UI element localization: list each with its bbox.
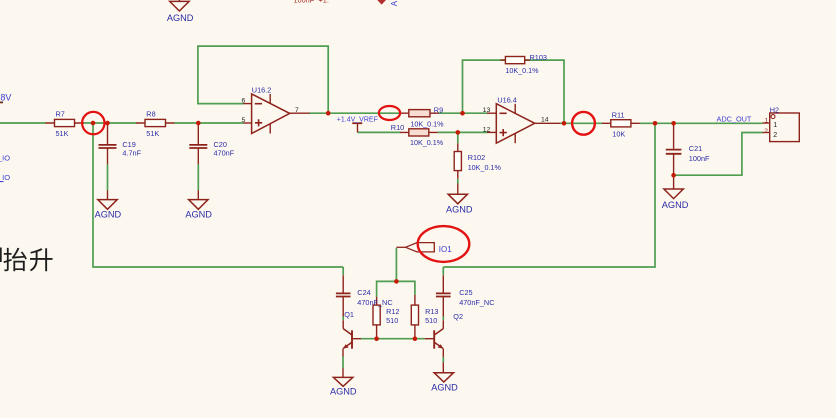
svg-text:AGND: AGND — [185, 209, 212, 219]
svg-text:6: 6 — [242, 97, 246, 104]
pin 2 lead — [763, 132, 770, 134]
svg-text:U16.2: U16.2 — [252, 86, 271, 95]
svg-text:5: 5 — [242, 117, 246, 124]
wire C24 lead green gap — [342, 317, 344, 321]
ground AGND under R102 — [446, 184, 473, 215]
svg-text:510: 510 — [386, 316, 398, 325]
node C21 bottom / H2 pin2 wire — [671, 173, 676, 178]
node IO1 tee — [394, 279, 399, 284]
resistor R7 — [46, 109, 85, 137]
svg-text:AGND: AGND — [446, 204, 473, 214]
plus symbol — [500, 129, 507, 136]
svg-text:1: 1 — [765, 118, 769, 125]
wire R102 top stub — [457, 132, 459, 143]
svg-text:IO1: IO1 — [439, 245, 452, 254]
power stub bottom — [514, 133, 516, 143]
pin 5 lead — [244, 122, 252, 124]
svg-text:10K_0.1%: 10K_0.1% — [468, 163, 502, 172]
transistor Q1 — [343, 310, 361, 378]
node C19 tap — [105, 121, 110, 126]
svg-text:1: 1 — [773, 122, 777, 129]
wire IO1 port down riser — [395, 248, 397, 281]
annotation circle 3 (U16.4 output) — [572, 112, 595, 135]
svg-text:10K: 10K — [612, 129, 625, 138]
svg-text:R10: R10 — [391, 123, 404, 132]
wire C25 lead green gap — [442, 317, 444, 321]
wire Q2 emitter segment — [442, 357, 444, 363]
svg-text:R8: R8 — [146, 109, 155, 118]
resistor R10 — [391, 123, 444, 147]
svg-text:2: 2 — [773, 132, 777, 139]
wire U16.2 output to R9 — [309, 112, 401, 114]
emitter diagonal with arrow — [343, 342, 351, 348]
emitter lead — [342, 348, 344, 356]
svg-text:510: 510 — [425, 316, 437, 325]
node C21 tap — [671, 121, 676, 126]
svg-text:R13: R13 — [425, 307, 438, 316]
resistor R9 — [400, 106, 444, 129]
wire +1.4V_VREF to R10 — [358, 131, 401, 133]
svg-text:470nF_NC: 470nF_NC — [459, 298, 494, 307]
svg-text:AGND: AGND — [330, 387, 357, 397]
power stub bottom — [269, 124, 271, 134]
power stub top — [514, 104, 516, 114]
emitter lead — [442, 348, 444, 357]
pin 13 lead — [487, 112, 496, 114]
node main/R7 out (in circle) — [91, 121, 96, 126]
svg-text:51K: 51K — [146, 129, 159, 138]
svg-text:7: 7 — [295, 107, 299, 114]
wire R7 to R8 segment — [84, 122, 137, 124]
node C20 tap — [196, 121, 201, 126]
power bar fragment under +1.8V — [0, 101, 3, 103]
svg-text:470nF: 470nF — [214, 149, 235, 158]
ground AGND under C19 — [95, 190, 122, 219]
svg-text:10K_0.1%: 10K_0.1% — [410, 119, 444, 128]
svg-text:10K_0.1%: 10K_0.1% — [505, 66, 539, 75]
node R9/R103 riser — [460, 111, 465, 116]
transistor Q2 — [425, 312, 463, 373]
wire R103 feedback loop left riser — [463, 60, 506, 113]
annotation ellipse 4 (IO1 port) — [418, 226, 470, 262]
connector H2 — [763, 105, 800, 141]
svg-text:13: 13 — [483, 107, 491, 114]
base lead — [425, 338, 434, 340]
svg-text:R9: R9 — [434, 106, 443, 115]
svg-text:R102: R102 — [468, 153, 485, 162]
svg-text:4.7nF: 4.7nF — [122, 149, 141, 158]
resistor R103 — [500, 53, 547, 75]
annotation ellipse 2 (VREF node) — [379, 106, 400, 120]
power port +1.4V_VREF — [337, 117, 378, 133]
minus symbol — [500, 112, 507, 114]
pin 12 lead — [487, 131, 496, 133]
svg-text:R12: R12 — [386, 307, 399, 316]
wire R103 right riser down to output — [525, 60, 564, 123]
pin 6 lead — [244, 103, 252, 105]
ground AGND under C21 — [662, 175, 689, 210]
svg-text:AGND: AGND — [662, 200, 689, 210]
node R11 out / right riser — [653, 121, 658, 126]
annotation circle 1 (R7 output node) — [82, 112, 104, 134]
resistor R13 — [411, 295, 438, 339]
power stub top — [269, 94, 271, 103]
wire C19 lower segment — [107, 164, 109, 190]
svg-text:12: 12 — [483, 127, 491, 134]
svg-text:H2: H2 — [770, 105, 779, 114]
ground AGND under Q1 — [330, 377, 357, 396]
ground AGND under C20 — [185, 190, 212, 219]
capacitor C25 — [436, 275, 495, 328]
wire R11 to H2 pin1 — [640, 122, 763, 124]
svg-text:100nF: 100nF — [294, 0, 315, 4]
base lead — [352, 338, 361, 340]
resistor R12 — [373, 297, 399, 339]
node R10/R102 — [456, 130, 461, 135]
pin 7 output lead — [290, 112, 310, 114]
svg-text:+1.4V_VREF: +1.4V_VREF — [337, 117, 378, 124]
emitter diagonal with arrow — [434, 342, 443, 348]
wire C25 top stub — [442, 267, 444, 275]
capacitor C20 — [189, 123, 234, 164]
svg-text:R11: R11 — [612, 111, 625, 120]
ground AGND top edge — [167, 0, 194, 23]
svg-text:10K_0.1%: 10K_0.1% — [410, 138, 444, 147]
op-amp U16.2 — [242, 86, 310, 134]
svg-text:U16.4: U16.4 — [497, 96, 516, 105]
svg-text:AGND: AGND — [167, 13, 194, 23]
emitter lower lead — [342, 368, 344, 377]
wire C21 bottom to H2 pin2 — [674, 133, 763, 176]
capacitor C21 — [666, 123, 710, 175]
svg-text:AGND: AGND — [95, 209, 122, 219]
svg-text:14: 14 — [541, 117, 549, 124]
pin 1 lead — [763, 122, 770, 124]
resistor R8 — [136, 109, 175, 137]
wire left riser down and bottom rail to C24 — [93, 123, 343, 267]
wire R10 to U16.4 pin12 — [438, 131, 488, 133]
svg-text:A: A — [390, 0, 399, 6]
svg-text:R103: R103 — [530, 53, 547, 62]
wire R8 to C20 node and to U16.2 pin5 — [175, 122, 244, 124]
base bar — [433, 330, 435, 348]
svg-text:AGND: AGND — [431, 382, 458, 392]
wire U16.2 feedback loop — [198, 46, 328, 113]
ground AGND under Q2 — [431, 373, 458, 393]
wire IO1 tee to R12 and R13 — [377, 281, 415, 296]
svg-text:抬升: 抬升 — [3, 247, 55, 275]
node R12 base rail — [374, 336, 379, 341]
wire base rail Q1 to Q2 — [361, 338, 425, 340]
wire right riser down to bottom rail — [443, 123, 655, 267]
wire C24 top stub — [342, 267, 344, 275]
svg-text:C24: C24 — [357, 288, 370, 297]
resistor R11 — [602, 111, 640, 139]
node U16.4 output/R103 — [562, 121, 567, 126]
svg-text:C21: C21 — [689, 144, 702, 153]
plus symbol — [255, 119, 262, 126]
svg-text:470nF_NC: 470nF_NC — [357, 298, 392, 307]
partial character stroke at left edge — [0, 248, 2, 263]
svg-text:+1.: +1. — [319, 0, 329, 4]
svg-text:_IO: _IO — [0, 153, 10, 162]
svg-text:C25: C25 — [459, 288, 472, 297]
wire C20 lower segment — [197, 164, 199, 190]
port IO1 — [396, 243, 452, 254]
pin1 indicator circle — [771, 115, 775, 119]
wire Q1 emitter segment — [342, 356, 344, 368]
capacitor C19 — [99, 123, 142, 164]
svg-text:Q2: Q2 — [453, 312, 463, 321]
wire R102 lower segment — [457, 179, 459, 184]
minus symbol — [255, 103, 262, 105]
collector diagonal — [434, 329, 443, 335]
top edge fragment: power arrow — [377, 0, 386, 5]
node R13 base rail — [413, 336, 418, 341]
svg-text:R7: R7 — [56, 109, 65, 118]
svg-text:100nF: 100nF — [689, 154, 710, 163]
collector diagonal — [343, 329, 352, 335]
svg-text:_IO: _IO — [0, 173, 10, 182]
wire U16.4 output to R11 — [561, 122, 602, 124]
pin 14 output lead — [535, 122, 561, 124]
op-amp U16.4 — [483, 96, 561, 144]
base bar — [351, 330, 353, 348]
svg-text:Q1: Q1 — [344, 310, 354, 319]
svg-text:ADC_OUT: ADC_OUT — [717, 115, 752, 124]
resistor R102 — [454, 143, 501, 179]
wire main input net left — [0, 122, 46, 124]
svg-text:+1.8V: +1.8V — [0, 92, 11, 102]
emitter lower lead — [442, 362, 444, 373]
node U16.2 output/feedback — [326, 111, 331, 116]
capacitor C24 — [336, 275, 393, 328]
svg-text:2: 2 — [764, 128, 768, 135]
wire R9 to U16.4 pin13 — [439, 112, 488, 114]
svg-text:51K: 51K — [56, 129, 69, 138]
